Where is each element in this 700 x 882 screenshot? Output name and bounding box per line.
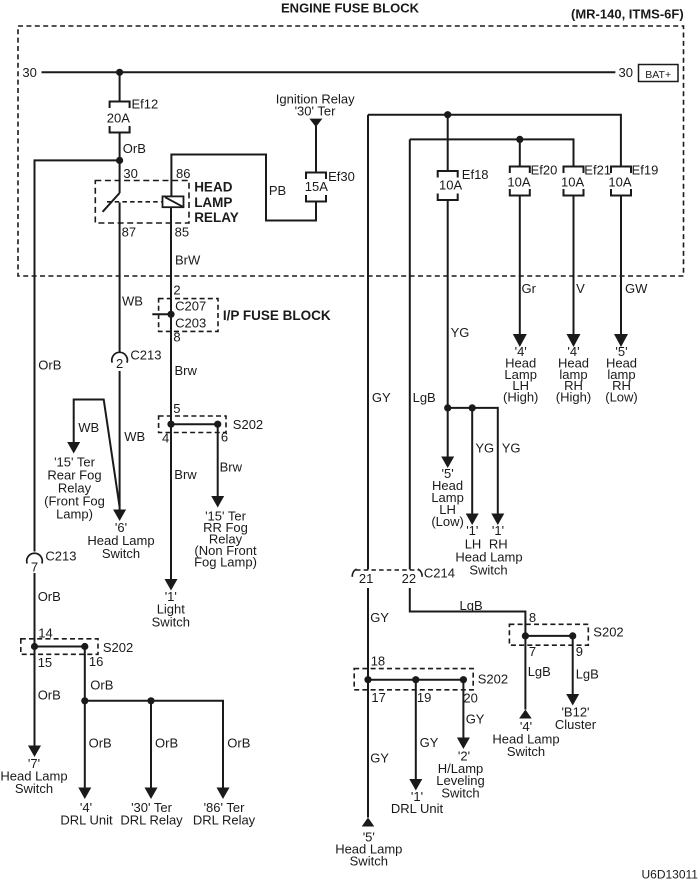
svg-text:OrB: OrB — [89, 736, 112, 751]
svg-text:20A: 20A — [107, 111, 130, 126]
relay coil — [163, 196, 184, 207]
arrow to rear fog relay — [67, 442, 80, 454]
svg-text:Switch: Switch — [15, 781, 53, 796]
connector C213 (pin 2) — [112, 352, 128, 362]
arrow to '1' DRL unit — [409, 779, 422, 791]
arrow to '5' head lamp switch — [362, 818, 375, 827]
svg-text:LgB: LgB — [528, 664, 551, 679]
wire S202 pin19 GY to DRL unit — [415, 680, 417, 779]
wire LgB below C214 to S202 right — [410, 588, 526, 636]
svg-text:DRL Unit: DRL Unit — [60, 813, 113, 828]
splice junction pin 9 — [569, 632, 576, 639]
svg-text:LgB: LgB — [576, 666, 599, 681]
svg-text:Ef20: Ef20 — [531, 163, 558, 178]
svg-text:YG: YG — [451, 325, 470, 340]
svg-text:Gr: Gr — [522, 281, 537, 296]
svg-text:GY: GY — [466, 712, 485, 727]
wire relay pin 85 BrW down through I/P fuse block — [170, 207, 172, 424]
junction OrB split — [116, 157, 123, 164]
wire C213 to '6' head lamp switch WB — [119, 371, 121, 510]
wire S202 pin15 OrB to '7' head lamp switch — [34, 647, 36, 746]
svg-text:19: 19 — [417, 690, 431, 705]
fuse rail 1 (Ef18/Ef19 feed) — [368, 115, 621, 167]
fuse Ef21 10A — [564, 167, 584, 174]
wire to DRL relay 30 ter — [150, 701, 152, 788]
svg-text:S202: S202 — [478, 671, 508, 686]
svg-text:Ef12: Ef12 — [132, 97, 159, 112]
junction YG branch — [469, 404, 476, 411]
wire S202 pin9 LgB to B12 cluster — [572, 636, 574, 694]
splice junction pin 16 — [81, 643, 88, 650]
junction rail1 to Ef18 — [444, 111, 451, 118]
svg-text:10A: 10A — [507, 175, 530, 190]
wire Ef12 to OrB junction — [119, 133, 121, 194]
wire rail1 to Ef18 — [447, 115, 449, 171]
splice S202 internal bar — [35, 646, 85, 648]
splice S202 (pins 18,17,19,20) dashed box — [354, 669, 473, 690]
arrow to head lamp LH high — [513, 334, 527, 347]
svg-text:I/P FUSE BLOCK: I/P FUSE BLOCK — [223, 308, 331, 323]
fuse Ef30 15A — [306, 173, 326, 180]
svg-text:Switch: Switch — [102, 546, 140, 561]
svg-text:S202: S202 — [103, 640, 133, 655]
svg-text:8: 8 — [529, 610, 536, 625]
svg-text:Brw: Brw — [174, 467, 197, 482]
svg-text:17: 17 — [371, 690, 385, 705]
svg-text:YG: YG — [475, 441, 494, 456]
fuse Ef12 20A — [110, 102, 130, 109]
engine fuse block boundary (dashed) — [18, 26, 684, 276]
junction on bus above Ef12 — [116, 69, 123, 76]
arrow to '6' head lamp switch — [113, 510, 126, 522]
splice junction pin 15 — [31, 643, 38, 650]
svg-text:OrB: OrB — [90, 678, 113, 693]
wire S202 pin7 LgB to '4' head lamp switch — [524, 636, 526, 710]
wire Ef20 Gr to head lamp LH high — [519, 196, 521, 335]
svg-text:7: 7 — [529, 644, 536, 659]
splice junction pin 19 — [412, 676, 419, 683]
svg-text:BrW: BrW — [175, 253, 201, 268]
svg-text:DRL Relay: DRL Relay — [193, 813, 256, 828]
svg-text:Switch: Switch — [441, 785, 479, 800]
arrow to light switch — [165, 579, 178, 591]
svg-text:Brw: Brw — [220, 460, 243, 475]
svg-text:86: 86 — [176, 166, 190, 181]
fuse Ef18 10A — [438, 171, 458, 178]
svg-text:9: 9 — [576, 644, 583, 659]
bus wire 30 — [42, 71, 616, 73]
svg-text:GY: GY — [370, 610, 389, 625]
svg-text:Lamp): Lamp) — [56, 507, 93, 522]
arrow to '30' Ter DRL relay — [145, 788, 158, 800]
svg-text:Switch: Switch — [152, 615, 190, 630]
svg-text:OrB: OrB — [38, 688, 61, 703]
svg-text:8: 8 — [173, 330, 180, 345]
wire rail2 to Ef20 — [519, 139, 521, 166]
svg-text:6: 6 — [221, 430, 228, 445]
junction YG main — [444, 404, 451, 411]
svg-text:C207: C207 — [175, 299, 206, 314]
splice junction pin 20 — [460, 676, 467, 683]
wire Ef19 GW to head lamp RH low — [620, 196, 622, 335]
svg-text:'30' Ter: '30' Ter — [295, 103, 337, 118]
svg-text:GY: GY — [420, 735, 439, 750]
svg-text:2: 2 — [116, 356, 123, 371]
svg-text:U6D13011: U6D13011 — [642, 868, 699, 882]
svg-text:22: 22 — [402, 571, 416, 586]
svg-text:Brw: Brw — [175, 363, 198, 378]
OrB distribution rail — [85, 701, 223, 788]
svg-text:30: 30 — [22, 65, 36, 80]
arrow to '86' Ter DRL relay — [217, 788, 230, 800]
svg-text:Ef18: Ef18 — [462, 167, 489, 182]
svg-text:S202: S202 — [593, 625, 623, 640]
svg-text:21: 21 — [359, 571, 373, 586]
wire Ef18 YG down — [447, 200, 449, 408]
relay switch bottom contact stub — [119, 203, 121, 224]
svg-text:Ef30: Ef30 — [328, 169, 355, 184]
relay K1 HEAD LAMP RELAY box — [95, 181, 189, 224]
svg-text:85: 85 — [175, 225, 189, 240]
svg-text:10A: 10A — [561, 175, 584, 190]
splice S202 (pins 5,4,6) dashed box — [159, 416, 226, 433]
wire C213 pin7 down to S202 — [34, 573, 36, 647]
source arrow from ignition relay — [309, 119, 322, 127]
svg-text:5: 5 — [173, 401, 180, 416]
svg-text:Fog Lamp): Fog Lamp) — [194, 555, 257, 570]
fuse rail 2 (Ef20/Ef21 feed) — [410, 139, 574, 166]
wire GY below C214 to S202 — [367, 588, 369, 680]
svg-text:WB: WB — [122, 294, 143, 309]
svg-text:30: 30 — [619, 65, 633, 80]
svg-text:C213: C213 — [45, 549, 76, 564]
splice S202 (pins 14,15,16) dashed box — [21, 639, 98, 655]
svg-text:GW: GW — [625, 281, 648, 296]
svg-text:HEAD: HEAD — [194, 180, 233, 195]
svg-text:ENGINE FUSE BLOCK: ENGINE FUSE BLOCK — [281, 0, 420, 15]
svg-text:15: 15 — [38, 655, 52, 670]
svg-text:16: 16 — [89, 654, 103, 669]
wire LgB main vertical (upper) — [409, 139, 411, 569]
wire bus to fuse Ef12 — [119, 72, 121, 101]
svg-text:PB: PB — [269, 183, 286, 198]
svg-text:Ef21: Ef21 — [584, 163, 611, 178]
svg-text:Ef19: Ef19 — [632, 163, 659, 178]
svg-text:LgB: LgB — [413, 390, 436, 405]
splice S202 internal bar — [368, 679, 463, 681]
svg-text:LAMP: LAMP — [194, 195, 232, 210]
splice S202 internal bar — [525, 635, 572, 637]
splice junction pin 6 — [214, 421, 221, 428]
svg-text:C214: C214 — [424, 566, 455, 581]
relay switch blade — [103, 193, 120, 212]
svg-text:(High): (High) — [503, 390, 538, 405]
svg-text:DRL Relay: DRL Relay — [120, 813, 183, 828]
svg-text:7: 7 — [31, 560, 38, 575]
wire relay pin 87 WB down to C213 — [119, 223, 121, 352]
svg-text:(Low): (Low) — [605, 390, 638, 405]
svg-text:OrB: OrB — [38, 358, 61, 373]
svg-text:GY: GY — [372, 390, 391, 405]
arrow to LH head lamp switch — [466, 514, 479, 526]
svg-text:S202: S202 — [233, 417, 263, 432]
arrow to 'B12' cluster — [566, 694, 579, 706]
terminal BAT+ — [639, 65, 679, 82]
wire S202 pin 6 Brw to RR fog relay — [217, 424, 219, 496]
wire S202 pin 4 Brw to light switch — [170, 424, 172, 579]
svg-text:GY: GY — [370, 751, 389, 766]
svg-text:10A: 10A — [608, 175, 631, 190]
svg-text:RELAY: RELAY — [194, 210, 239, 225]
svg-text:OrB: OrB — [227, 736, 250, 751]
wire Ef21 V to head lamp RH high — [573, 196, 575, 335]
arrow to head lamp RH high — [567, 334, 581, 347]
junction OrB rail left — [81, 697, 88, 704]
svg-text:15A: 15A — [305, 179, 328, 194]
svg-text:OrB: OrB — [155, 736, 178, 751]
svg-text:YG: YG — [502, 441, 521, 456]
junction OrB rail middle — [147, 697, 154, 704]
wire OrB branch left and down to C213 — [35, 160, 120, 551]
wire S202 pin16 OrB down — [84, 647, 86, 788]
connector C207 / C203 (dashed box) — [159, 299, 218, 332]
arrow to '4' head lamp switch — [519, 710, 532, 719]
wire S202 pin17 GY to '5' head lamp switch — [367, 680, 369, 818]
svg-text:DRL Unit: DRL Unit — [391, 801, 444, 816]
svg-text:Switch: Switch — [469, 563, 507, 578]
svg-text:C213: C213 — [130, 348, 161, 363]
branch wire WB to rear fog relay — [74, 400, 120, 508]
arrow to '7' head lamp switch — [28, 746, 41, 758]
svg-text:Cluster: Cluster — [555, 717, 597, 732]
svg-text:Switch: Switch — [350, 854, 388, 869]
wire YG to head lamp LH low — [447, 408, 449, 457]
connector junction dot with stub — [152, 313, 171, 315]
svg-text:10A: 10A — [439, 178, 462, 193]
connector C213 (pin 7) — [27, 553, 43, 563]
arrow to RR fog relay — [211, 496, 224, 508]
relay linkage (dashed) — [107, 201, 162, 203]
arrow to head lamp RH low — [614, 334, 628, 347]
svg-text:(High): (High) — [556, 390, 591, 405]
arrow to head lamp LH low — [441, 457, 454, 469]
svg-text:(Low): (Low) — [431, 514, 464, 529]
fuse Ef19 10A — [611, 167, 631, 174]
arrow to '2' H/Lamp leveling switch — [457, 738, 470, 750]
svg-text:30: 30 — [123, 166, 137, 181]
wire GY main vertical (upper) — [367, 115, 369, 570]
junction rail2 to Ef20 — [516, 136, 523, 143]
svg-text:Switch: Switch — [507, 744, 545, 759]
connector C214 (pins 21,22) — [356, 569, 418, 571]
splice junction pin 4 — [167, 421, 174, 428]
splice S202 internal bar — [171, 423, 218, 425]
svg-text:V: V — [576, 281, 585, 296]
svg-text:18: 18 — [371, 654, 385, 669]
wire YG to LH head lamp switch — [471, 408, 473, 514]
svg-text:WB: WB — [78, 420, 99, 435]
svg-text:LgB: LgB — [460, 598, 483, 613]
svg-text:2: 2 — [173, 283, 180, 298]
svg-text:WB: WB — [124, 429, 145, 444]
svg-text:BAT+: BAT+ — [645, 69, 671, 81]
splice junction pin 17 — [364, 676, 371, 683]
wire relay pin 86 to fuse Ef30 (PB) — [171, 155, 316, 221]
svg-text:(MR-140, ITMS-6F): (MR-140, ITMS-6F) — [571, 6, 684, 21]
arrow to RH head lamp switch — [491, 514, 504, 526]
svg-text:20: 20 — [463, 690, 477, 705]
splice junction pin 7 — [522, 632, 529, 639]
svg-text:C203: C203 — [175, 316, 206, 331]
svg-text:4: 4 — [162, 431, 169, 446]
wire S202 pin20 GY to leveling switch — [462, 680, 464, 738]
svg-text:OrB: OrB — [123, 141, 146, 156]
svg-text:OrB: OrB — [38, 589, 61, 604]
svg-text:87: 87 — [122, 225, 136, 240]
fuse Ef20 10A — [510, 167, 530, 174]
splice S202 (pins 8,7,9) dashed box — [509, 624, 588, 645]
wire ignition relay to Ef30 — [315, 126, 317, 173]
YG branch rail — [448, 408, 498, 514]
arrow to '4' DRL unit — [78, 788, 91, 800]
